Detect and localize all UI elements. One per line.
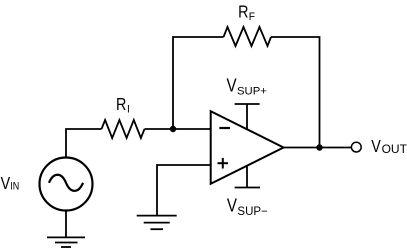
svg-text:SUP+: SUP+ [237,86,267,98]
svg-text:F: F [249,10,256,22]
svg-text:V: V [371,138,381,157]
svg-text:R: R [238,3,248,22]
svg-text:OUT: OUT [382,142,407,156]
svg-text:SUP−: SUP− [237,206,268,218]
svg-text:IN: IN [10,181,19,193]
svg-text:I: I [127,103,130,115]
svg-text:R: R [116,96,126,115]
svg-text:V: V [1,175,11,194]
svg-text:V: V [227,195,238,216]
svg-text:V: V [227,75,238,96]
